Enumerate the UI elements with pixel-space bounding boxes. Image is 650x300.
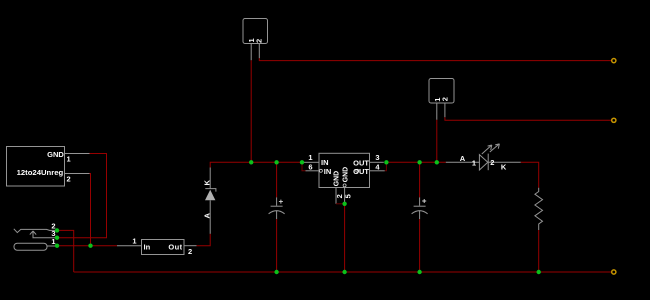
In pin 1	[117, 237, 142, 246]
device Q2 (square box, pins 1,2)	[429, 79, 454, 120]
svg-text:2: 2	[490, 158, 494, 167]
output pad 2	[612, 118, 616, 122]
capacitor C2	[412, 197, 428, 219]
supply pin 2	[65, 174, 90, 184]
U1 pin 5	[343, 188, 352, 204]
svg-text:1: 1	[132, 237, 136, 246]
svg-text:IN: IN	[321, 158, 329, 167]
svg-text:K: K	[203, 180, 212, 186]
junction U1 gnd pins	[342, 202, 346, 206]
svg-text:2: 2	[67, 175, 71, 184]
power supply block 12to24Unreg	[7, 147, 65, 187]
junction U1 pin1 on +rail	[300, 160, 304, 164]
svg-text:2: 2	[440, 97, 449, 101]
ground bus wire	[74, 271, 612, 273]
series regulator In/Out block	[142, 240, 185, 255]
svg-text:A: A	[460, 154, 466, 163]
LED D2	[446, 144, 521, 170]
junction jack pin2	[55, 228, 59, 232]
+rail right segment	[386, 161, 445, 163]
diode D1	[205, 168, 216, 234]
svg-text:Out: Out	[168, 243, 182, 252]
wire supply pin2 down to input node	[90, 174, 91, 246]
svg-text:A: A	[203, 213, 212, 219]
U1 pin 6	[306, 162, 320, 171]
svg-text:GND: GND	[342, 167, 349, 182]
wire C2 to ground bus	[419, 219, 421, 272]
junction input node	[88, 244, 92, 248]
regulator IC U1	[319, 153, 370, 187]
wire Q2 pin2 to output pad 2	[445, 117, 612, 120]
svg-text:2: 2	[255, 39, 264, 43]
wire Q1 pin2 to output pad 1	[259, 58, 611, 60]
svg-text:5: 5	[343, 194, 352, 198]
wire jack pin1 to regulator input	[57, 245, 117, 247]
junction R1 on ground bus	[537, 270, 541, 274]
wire Q1 pin1 to +rail	[250, 60, 252, 162]
wire Out pin2 to diode anode	[197, 234, 211, 246]
output pad 1	[612, 59, 616, 63]
output pad 3	[612, 270, 616, 274]
junction C2 on ground bus	[417, 270, 421, 274]
svg-text:IN: IN	[324, 167, 332, 176]
wire resistor to ground bus	[538, 230, 540, 272]
junction Q1 on +rail	[249, 160, 253, 164]
U1 pin 1	[304, 153, 319, 163]
junction jack pin3	[55, 236, 59, 240]
wire supply pin1 to jack pin3	[58, 154, 107, 238]
jumper wire pin1-pin6	[302, 162, 306, 171]
resistor R1	[535, 188, 543, 230]
svg-text:1: 1	[308, 153, 312, 162]
svg-text:1: 1	[51, 237, 55, 246]
junction C1 on +rail	[274, 160, 278, 164]
U1 pin 2	[335, 188, 344, 204]
wire jack pin2 to ground bus	[57, 230, 74, 272]
junction jack pin1	[55, 244, 59, 248]
capacitor C1	[269, 197, 285, 219]
junction C2 on +rail	[417, 160, 421, 164]
svg-text:2: 2	[188, 247, 192, 256]
svg-text:12to24Unreg: 12to24Unreg	[17, 168, 64, 177]
wire diode cathode to +rail and rail left segment	[210, 162, 302, 167]
svg-text:GND: GND	[334, 171, 341, 186]
svg-text:3: 3	[375, 153, 379, 162]
svg-text:1: 1	[472, 158, 476, 167]
device Q1 (square box, pins 1,2)	[243, 19, 268, 61]
wire C1 to ground bus	[276, 219, 278, 272]
junction C1 on ground bus	[274, 270, 278, 274]
junction U1 pin3 on +rail	[384, 160, 388, 164]
wire +rail to C2	[419, 162, 421, 197]
svg-text:In: In	[144, 243, 151, 252]
Out pin 2	[184, 246, 197, 256]
U1 pin 4	[370, 162, 385, 171]
svg-text:GND: GND	[47, 150, 64, 159]
jumper wire pin2-pin5	[336, 203, 345, 205]
svg-text:1: 1	[67, 155, 71, 164]
supply pin 1 (GND)	[65, 154, 90, 164]
junction Q2 on +rail	[435, 160, 439, 164]
wire +rail to C1	[276, 162, 278, 197]
svg-text:K: K	[501, 163, 507, 172]
junction U1 gnd on ground bus	[342, 270, 346, 274]
barrel jack connector J1	[14, 229, 57, 250]
svg-text:OUT: OUT	[353, 167, 369, 176]
wire Q2 pin1 to +rail	[436, 120, 438, 163]
svg-text:6: 6	[308, 162, 312, 171]
wire U1 ground pins to ground bus	[344, 204, 346, 272]
wire LED cathode to resistor	[521, 162, 539, 188]
jumper wire pin3-pin4	[385, 162, 387, 171]
U1 pin 3	[370, 153, 384, 163]
